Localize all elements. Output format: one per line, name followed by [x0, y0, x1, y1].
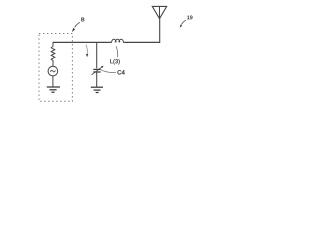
leader arrow from B to dashed box corner — [72, 22, 80, 32]
ground (C4 branch) — [91, 87, 103, 92]
leader from C4 to capacitor — [101, 70, 116, 73]
leader arrow from L(3) to coil — [116, 46, 118, 57]
inductor L(3) — [112, 39, 124, 42]
wire: main horizontal line (right of coil) — [123, 41, 160, 43]
antenna 19 — [152, 6, 166, 18]
capacitor C4 (variable) — [92, 66, 104, 75]
resistor (source impedance) — [51, 42, 55, 66]
dashed box (block B) — [39, 34, 72, 102]
wire: shunt branch down from main line — [96, 42, 98, 68]
leader arrow for 19 — [180, 20, 186, 27]
label L(3) — [110, 59, 119, 64]
ground (source) — [47, 87, 60, 92]
AC source — [48, 66, 58, 76]
wire: antenna feed — [159, 19, 161, 43]
label C4 — [118, 70, 125, 74]
label 19 — [187, 16, 192, 20]
label B — [81, 18, 84, 22]
leader arrow 4 (pointing down between box and capacitor) — [86, 45, 88, 58]
wire: source to ground — [52, 76, 54, 87]
wire: capacitor to ground — [96, 72, 98, 87]
wire: main horizontal line (left of coil) — [53, 41, 112, 43]
